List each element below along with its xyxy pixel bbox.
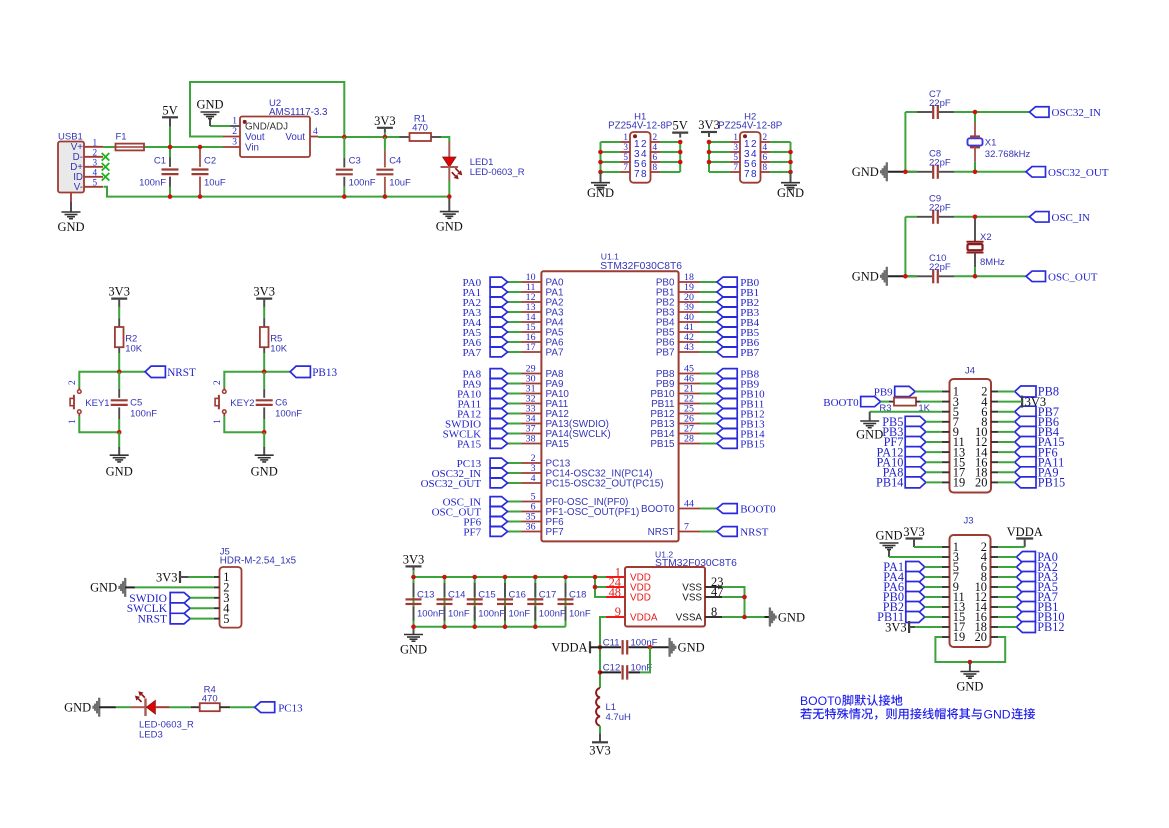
ground under USB1 (70, 202, 72, 212)
wire J4 pin 15 (926, 461, 942, 463)
ground J3 pin3 (888, 550, 890, 557)
svg-text:3V3: 3V3 (1025, 395, 1047, 409)
net flag SWCLK (170, 603, 190, 614)
capacitor C2 10uF (199, 147, 201, 150)
J5 pin 5 stub (214, 618, 220, 620)
net flag PF6 (1015, 447, 1036, 458)
net flag PB10 (717, 389, 737, 399)
capacitor C17 100nF (534, 577, 536, 627)
U1.1 pin 6 PF1-OSC_OUT(PF1) (522, 511, 542, 513)
svg-text:36: 36 (526, 522, 536, 533)
net flag NRST (170, 613, 190, 624)
wire J3 pin20 to gnd (970, 637, 1005, 662)
svg-text:PB13: PB13 (312, 367, 337, 379)
wire to flag PA10 (508, 393, 522, 395)
svg-text:1: 1 (733, 132, 738, 142)
wire to flag OSC32_IN (508, 472, 522, 474)
wire gnd to LED3 (99, 706, 116, 708)
power flag 3V3 J3 pin1 (906, 537, 923, 539)
net flag PA12 (905, 447, 926, 458)
H1 pin 7 stub (621, 171, 631, 173)
fuse F1 (116, 144, 145, 151)
U1.2 pin 9 VDDA (606, 616, 625, 618)
wire J4 pin 20 (998, 481, 1015, 483)
net flag PA11 (1015, 457, 1036, 468)
net flag PB7 (717, 347, 737, 357)
svg-text:8: 8 (641, 169, 647, 180)
net flag PA5 (1016, 582, 1035, 593)
capacitor C5 100nF (118, 372, 120, 389)
svg-text:NRST: NRST (138, 614, 167, 626)
ground H2 right (790, 172, 792, 183)
resistor R5 10K (260, 327, 269, 347)
wire R4 to PC13 flag (230, 706, 255, 708)
svg-text:2: 2 (232, 127, 237, 137)
U1.1 pin 28 PB15 (679, 443, 700, 445)
svg-text:10uF: 10uF (204, 178, 226, 189)
svg-text:GND: GND (852, 270, 879, 284)
svg-text:3V3: 3V3 (698, 118, 720, 132)
net flag PB3 (905, 426, 926, 437)
J3 pin 10 stub (991, 586, 999, 588)
junction gnd OSC32_OUT (903, 170, 908, 175)
wire H1 pin 5 (601, 161, 621, 163)
svg-text:C3: C3 (349, 156, 361, 167)
svg-text:10nF: 10nF (509, 608, 531, 619)
svg-text:3V3: 3V3 (589, 743, 611, 757)
svg-text:3V3: 3V3 (108, 285, 130, 299)
wire 3V3 stem (384, 133, 386, 137)
H1 pin 6 stub (651, 161, 661, 163)
U1.1 pin 10 PA0 (522, 281, 542, 283)
wire gnd to J3 pin3 (889, 556, 942, 558)
junction C13 bottom (411, 624, 416, 629)
U1.1 pin 34 PA13(SWDIO) (522, 423, 542, 425)
wire to flag PB10 (700, 393, 717, 395)
svg-text:OSC32_OUT: OSC32_OUT (421, 478, 482, 490)
J5 pin 2 stub (214, 586, 220, 588)
wire H1 pin 4 (660, 151, 680, 153)
junctions H1 left (598, 150, 603, 155)
wire J4 pin 14 (998, 451, 1015, 453)
wire to flag PB5 (700, 331, 717, 333)
ground KEY1 (118, 447, 120, 455)
svg-text:5: 5 (623, 152, 628, 162)
J4 pin 16 stub (991, 461, 998, 463)
wire LED3 to R4 (170, 706, 191, 708)
svg-text:38: 38 (526, 434, 536, 445)
svg-text:GND: GND (251, 465, 278, 479)
net flag PB6 (717, 337, 737, 347)
U1.1 pin 30 PA9 (522, 383, 542, 385)
svg-text:PB7: PB7 (656, 348, 675, 359)
wire J3 pin 8 (998, 576, 1016, 578)
svg-text:NRST: NRST (648, 527, 675, 538)
U1.1 pin 33 PA12 (522, 413, 542, 415)
net flag PA10 (905, 457, 926, 468)
U1.1 pin 22 PB11 (679, 403, 700, 405)
wire bottom row OSC32_OUT (887, 171, 917, 173)
junction bottom (117, 430, 122, 435)
svg-text:VSS: VSS (682, 593, 702, 604)
svg-text:4.7uH: 4.7uH (606, 712, 631, 723)
wire SWCLK to J5 (190, 607, 214, 609)
svg-text:PZ254V-12-8P: PZ254V-12-8P (608, 121, 673, 132)
U2 pin1 indicator dot (243, 120, 247, 124)
svg-text:C16: C16 (509, 589, 526, 600)
J4 pin 15 stub (942, 461, 950, 463)
J3 pin 20 stub (991, 636, 999, 638)
capacitor C15 100nF (474, 577, 476, 627)
wire J3 pin 14 (998, 606, 1016, 608)
wire decoupling bottom rail (413, 577, 415, 627)
svg-text:HDR-M-2.54_1x5: HDR-M-2.54_1x5 (220, 555, 297, 566)
power flag 5V H1 (672, 132, 688, 134)
wire 3V3 to J3 pin17 (915, 626, 942, 628)
H2 pin1 indicator dot (743, 134, 747, 138)
ground OSC32_IN section (886, 162, 888, 181)
J3 pin 7 stub (942, 576, 950, 578)
wire VDDA filter vertical (600, 617, 606, 688)
junction C16 bottom (503, 624, 508, 629)
wire decoupling top rail (413, 570, 415, 577)
svg-text:22pF: 22pF (929, 203, 951, 214)
net flag PB1 (1016, 602, 1035, 613)
svg-text:VSSA: VSSA (676, 613, 703, 624)
junction crystal bottom (973, 170, 978, 175)
U1.1 pin 19 PB1 (679, 291, 700, 293)
U1.1 pin 4 PC15-OSC32_OUT(PC15) (522, 482, 542, 484)
wire to flag PA4 (508, 321, 522, 323)
net flag PA4 (490, 317, 508, 327)
power flag 3V3 KEY2 (256, 298, 272, 300)
U1.1 pin 44 BOOT0 (679, 508, 700, 510)
wire to flag PA9 (508, 383, 522, 385)
H1 pin 2 stub (651, 141, 661, 143)
svg-text:PA7: PA7 (463, 347, 482, 359)
wire 5V stem (169, 126, 171, 147)
wire J3 pin 15 (925, 616, 942, 618)
net flag PB0 (717, 277, 737, 287)
svg-text:AMS1117-3.3: AMS1117-3.3 (269, 107, 328, 118)
wire 3V3 to J3 pin1 (914, 546, 942, 548)
U1.1 pin 37 PA14(SWCLK) (522, 433, 542, 435)
no-connect X on ID (102, 173, 110, 181)
junction C18 top (563, 575, 568, 580)
U1.2 pin 23 VSS (705, 586, 722, 588)
wire to flag PA3 (508, 311, 522, 313)
svg-text:1: 1 (623, 132, 628, 142)
switch KEY2 (223, 388, 225, 391)
U1.2 pin 8 VSSA (705, 616, 722, 618)
ground J3 bottom (969, 662, 971, 672)
U1.1 pin 31 PA10 (522, 393, 542, 395)
crystal X2 8MHz (974, 217, 976, 242)
wire J3 pin 6 (998, 566, 1016, 568)
wire J3 pin 9 (925, 586, 942, 588)
net flag PB6 (1015, 416, 1036, 427)
net flag OSC32_IN (1030, 107, 1050, 118)
U1.2 pin 24 VDD (606, 586, 625, 588)
ground decoupling rail (413, 627, 415, 635)
net flag PB3 (717, 307, 737, 317)
net flag PB12 (717, 409, 737, 419)
svg-text:PF7: PF7 (463, 527, 481, 539)
wire J4 pin 19 (926, 481, 942, 483)
net flag PA4 (906, 572, 925, 583)
power flag 3V3 J3 pin17 (908, 621, 910, 633)
wire to flag SWDIO (508, 423, 522, 425)
net flag PB15 (1015, 477, 1036, 488)
J5 pin 4 stub (214, 607, 220, 609)
U1.2 pin 47 VSS (705, 596, 722, 598)
capacitor C14 10nF (444, 577, 446, 627)
wire J4 pin 8 (998, 421, 1015, 423)
U1.1 pin 40 PB4 (679, 321, 700, 323)
J4 pin 7 stub (942, 421, 950, 423)
wire to flag PB1 (700, 291, 717, 293)
header J5 HDR-M-2.54_1x5 box (220, 567, 242, 628)
svg-text:VDDA: VDDA (551, 641, 587, 655)
J3 pin 18 stub (991, 626, 999, 628)
svg-text:GND: GND (875, 529, 902, 543)
net flag PB4 (717, 317, 737, 327)
junctions H2 left (707, 140, 712, 145)
capacitor C13 100nF (413, 583, 415, 597)
USB1 pin 4 stub (84, 176, 103, 178)
svg-text:PA15: PA15 (457, 439, 482, 451)
svg-text:22pF: 22pF (929, 262, 951, 273)
J3 pin 9 stub (942, 586, 950, 588)
svg-text:8: 8 (711, 605, 717, 619)
net flag PB12 (1016, 622, 1035, 633)
U2 pin 4 Vout (310, 136, 318, 138)
J4 pin 11 stub (942, 441, 950, 443)
svg-text:BOOT0: BOOT0 (823, 397, 859, 409)
svg-text:7: 7 (733, 162, 738, 172)
J3 pin 3 stub (942, 556, 950, 558)
note text line2 jumper cap instructions (800, 708, 982, 720)
svg-text:GND: GND (852, 165, 879, 179)
J4 pin 17 stub (942, 471, 950, 473)
wire to flag PB9 (700, 383, 717, 385)
J4 pin 19 stub (942, 481, 950, 483)
junction VSSA (742, 615, 747, 620)
junction C12 node (598, 670, 603, 675)
net flag PA9 (1015, 467, 1036, 478)
svg-text:BOOT0: BOOT0 (740, 504, 776, 516)
wire node to switch branch (79, 372, 119, 388)
H2 pin 6 stub (761, 161, 771, 163)
no-connect X on D- (102, 153, 110, 161)
wire bottom to gnd (263, 432, 265, 447)
net flag PA1 (490, 287, 508, 297)
wire J3 pin 4 (998, 556, 1016, 558)
svg-text:GND: GND (106, 465, 133, 479)
svg-text:X2: X2 (980, 232, 992, 243)
crystal X1 32.768kHz (974, 112, 976, 122)
power flag 3V3 decoupling (406, 565, 422, 567)
no-connect X on D+ (102, 163, 110, 171)
net flag OSC32_OUT (1026, 167, 1046, 178)
net flag OSC32_IN (490, 468, 508, 478)
svg-text:KEY1: KEY1 (85, 398, 109, 409)
svg-text:3: 3 (93, 157, 98, 167)
ground under LED1 (448, 199, 450, 212)
svg-text:4: 4 (531, 473, 536, 484)
svg-text:GND: GND (777, 186, 804, 200)
svg-text:47: 47 (711, 585, 723, 599)
J4 pin 10 stub (991, 431, 998, 433)
J4 pin 12 stub (991, 441, 998, 443)
svg-text:19: 19 (953, 630, 965, 644)
H1 pin1 indicator dot (633, 134, 637, 138)
inductor L1 4.7uH (596, 688, 600, 726)
svg-text:GND: GND (57, 220, 84, 234)
svg-text:BOOT0: BOOT0 (641, 504, 675, 515)
capacitor C4 10uF (384, 137, 386, 150)
J3 pin 2 stub (991, 546, 999, 548)
regulator U2 AMS1117-3.3 (240, 117, 310, 158)
net flag PF6 (490, 517, 508, 527)
wire H1 left bus (600, 142, 602, 172)
wire L1 to 3V3 (599, 726, 601, 734)
U1.1 pin 16 PA6 (522, 341, 542, 343)
junction VSS47 (742, 595, 747, 600)
net flag PB14 (905, 477, 926, 488)
power flag 3V3 J5 pin1 (179, 571, 181, 583)
wire bottom row OSC_OUT (887, 275, 917, 277)
wire to flag PA1 (508, 291, 522, 293)
wire to flag PB7 (700, 351, 717, 353)
U1.2 pin 1 VDD (606, 576, 625, 578)
wire R2 to node (118, 347, 120, 353)
J4 pin 1 stub (942, 391, 950, 393)
junction VDD1 (593, 575, 598, 580)
junction C14 top (442, 575, 447, 580)
svg-text:C18: C18 (569, 589, 586, 600)
svg-text:PZ254V-12-8P: PZ254V-12-8P (718, 121, 783, 132)
USB1 pin 5 stub (84, 186, 103, 188)
svg-text:GND: GND (90, 581, 117, 595)
net flag PC13 (255, 702, 275, 713)
wire to flag PA0 (508, 281, 522, 283)
svg-text:PA15: PA15 (546, 439, 570, 450)
ground OSC_IN section (886, 267, 888, 286)
U1.1 pin 38 PA15 (522, 443, 542, 445)
U1.1 pin 42 PB6 (679, 341, 700, 343)
wire U2 pin1 to GND (210, 125, 231, 127)
capacitor C9 22pF (917, 216, 932, 218)
wire to flag OSC_OUT (508, 511, 522, 513)
net flag NRST (145, 366, 165, 377)
wire R3 to J4 pin 3 (921, 401, 942, 403)
wire J3 pin2 to VDDA (998, 546, 1024, 548)
power flag 5V (162, 116, 178, 118)
wire H2 right bus (790, 142, 792, 172)
MCU U1.2 STM32F030C8T6 box (625, 567, 705, 627)
net flag PA2 (490, 297, 508, 307)
svg-text:C15: C15 (478, 589, 495, 600)
wire H2 pin 3 (709, 151, 731, 153)
H1 pin 1 stub (621, 141, 631, 143)
wire node to flag (264, 371, 290, 373)
net flag OSC32_OUT (490, 478, 508, 488)
U1.1 pin 13 PA3 (522, 311, 542, 313)
wire to flag PB13 (700, 423, 717, 425)
wire J3 pin 18 (998, 626, 1016, 628)
svg-text:GND/ADJ: GND/ADJ (245, 122, 288, 133)
junction crystal bottom (973, 274, 978, 279)
wire bottom to gnd (118, 432, 120, 447)
svg-text:5V: 5V (162, 103, 177, 117)
U1.1 pin 32 PA11 (522, 403, 542, 405)
resistor R3 1K (889, 401, 894, 403)
wire J4 pin 13 (926, 451, 942, 453)
header H2 box (740, 132, 761, 183)
power flag VDDA (589, 641, 591, 653)
resistor R2 10K (115, 327, 124, 347)
junction C15 top (472, 575, 477, 580)
svg-text:1: 1 (93, 137, 98, 147)
svg-text:7: 7 (623, 162, 628, 172)
junctions H2 right (788, 150, 793, 155)
svg-text:C2: C2 (204, 156, 216, 167)
wire J4 pin 4 to 3V3 (998, 401, 1022, 403)
net flag PB4 (1015, 426, 1036, 437)
U2 pin 2 Vout (223, 136, 240, 138)
net flag OSC_IN (490, 497, 508, 507)
wire to flag PF6 (508, 521, 522, 523)
U1.1 pin 45 PB8 (679, 373, 700, 375)
svg-text:LED-0603_R: LED-0603_R (470, 167, 525, 178)
wire H1 pin 7 (601, 171, 621, 173)
junction bottom (262, 430, 267, 435)
wire R5 to node (263, 347, 265, 353)
svg-text:8: 8 (751, 169, 757, 180)
wire LED1 cathode to GND rail (448, 181, 450, 197)
net flag PB9 (717, 379, 737, 389)
wire NRST to J5 (190, 618, 214, 620)
U1.1 pin 46 PB9 (679, 383, 700, 385)
U1.1 pin 27 PB14 (679, 433, 700, 435)
wire J4 pin 9 (926, 431, 942, 433)
capacitor C16 10nF (504, 577, 506, 627)
H2 pin 4 stub (761, 151, 771, 153)
U1.1 pin 26 PB13 (679, 423, 700, 425)
wire J3 pin 5 (925, 566, 942, 568)
net flag BOOT0 (717, 504, 737, 514)
wire H1 pin 8 (660, 171, 680, 173)
wire Vout feedback loop (190, 82, 344, 137)
wire SWDIO to J5 (190, 597, 214, 599)
wire H2 pin 6 (770, 161, 791, 163)
svg-text:NRST: NRST (167, 367, 196, 379)
net flag PA3 (490, 307, 508, 317)
ground J5 pin2 (124, 578, 126, 597)
junction C4 bottom (383, 194, 388, 199)
svg-text:GND: GND (400, 643, 427, 657)
wire BOOT0 to R3 (881, 401, 889, 403)
net flag PA0 (490, 277, 508, 287)
svg-text:8: 8 (653, 162, 658, 172)
wire H1 pin 2 (660, 141, 680, 143)
J4 pin 8 stub (991, 421, 998, 423)
wire to flag PA12 (508, 413, 522, 415)
wire J3 pin 12 (998, 596, 1016, 598)
wire H2 pin 1 (709, 141, 731, 143)
U1.1 pin 25 PB12 (679, 413, 700, 415)
